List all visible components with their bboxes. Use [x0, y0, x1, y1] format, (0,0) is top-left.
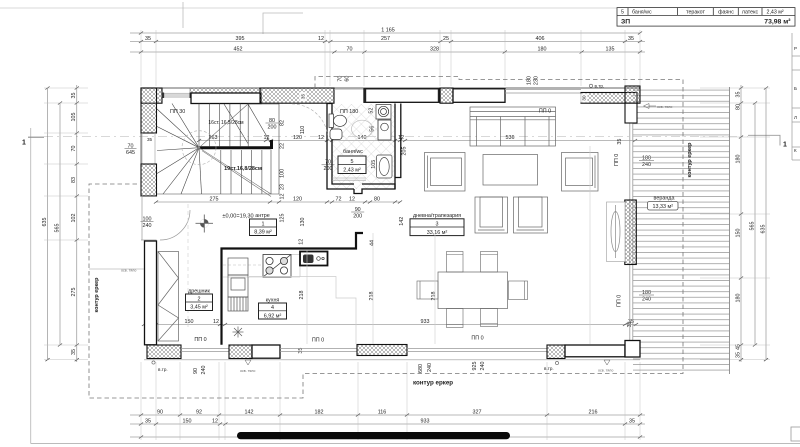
dimension col right segments — [735, 85, 743, 362]
svg-text:257: 257 — [381, 36, 390, 42]
svg-text:180: 180 — [735, 294, 741, 303]
door gap top 70 — [334, 88, 364, 90]
bay window contour dashed — [89, 77, 683, 399]
svg-text:35: 35 — [735, 92, 741, 98]
svg-text:135: 135 — [606, 46, 615, 52]
svg-text:13,33 м²: 13,33 м² — [653, 204, 674, 210]
label 70/60 rotated top — [338, 76, 351, 82]
svg-text:70: 70 — [347, 46, 353, 52]
label door 80/200 — [266, 118, 279, 131]
svg-text:35: 35 — [147, 137, 153, 142]
svg-text:1: 1 — [783, 142, 787, 149]
svg-text:в.тр.: в.тр. — [158, 367, 168, 372]
svg-text:3,45 м²: 3,45 м² — [190, 305, 208, 311]
bath sink — [376, 105, 391, 120]
svg-text:142: 142 — [245, 409, 254, 415]
antre dashed ref line — [187, 204, 189, 330]
svg-text:25: 25 — [443, 36, 449, 42]
wall thickness labels — [300, 92, 588, 103]
svg-text:536: 536 — [506, 135, 515, 141]
svg-text:933: 933 — [421, 319, 430, 325]
dining chair left — [417, 281, 438, 299]
stray vertical mark top-left — [182, 2, 184, 28]
svg-text:в.тр.: в.тр. — [544, 366, 554, 371]
stairs landing edge bold — [199, 140, 272, 149]
antre room label — [250, 213, 277, 236]
stairs upper flight treads — [199, 104, 279, 195]
dining chair top 2 — [481, 252, 498, 273]
antre door arc — [160, 210, 190, 240]
svg-text:контур еркер: контур еркер — [413, 380, 453, 387]
svg-text:дневна/трапезария: дневна/трапезария — [413, 213, 461, 219]
dimension row total 1165 top — [130, 27, 642, 34]
dining chair bottom 2 — [481, 309, 498, 327]
stairs hub circle dashed — [182, 131, 216, 165]
label 70/200 bath — [322, 160, 335, 173]
svg-text:680: 680 — [418, 364, 424, 373]
svg-text:2,43 м²: 2,43 м² — [343, 167, 361, 173]
svg-text:ПП 0: ПП 0 — [312, 338, 324, 344]
svg-text:110: 110 — [300, 126, 306, 135]
kitchen tall cabinet — [228, 258, 248, 297]
svg-text:1: 1 — [22, 140, 26, 147]
svg-text:8,39 м²: 8,39 м² — [254, 230, 272, 236]
kitchen zone edge — [248, 277, 356, 345]
dimension row bottom segments — [130, 409, 645, 416]
dining chair top 1 — [447, 252, 464, 273]
band end posts — [364, 89, 505, 103]
svg-text:92: 92 — [196, 409, 202, 415]
kitchen partition wall — [222, 233, 364, 345]
svg-text:латекс: латекс — [742, 9, 759, 15]
svg-text:фаянс: фаянс — [718, 9, 734, 15]
wall bottom D — [547, 345, 565, 359]
svg-text:35: 35 — [628, 36, 634, 42]
bathroom walls — [327, 104, 401, 194]
dimension col left 635 — [42, 87, 50, 362]
svg-text:16ст. 16,5/28см: 16ст. 16,5/28см — [208, 120, 244, 126]
svg-text:240: 240 — [143, 223, 152, 229]
wall bottom-right corner — [625, 341, 640, 358]
svg-text:1: 1 — [262, 221, 265, 227]
veranda deck — [633, 87, 730, 374]
armchair right — [562, 153, 599, 192]
interior dimension row y140 — [197, 135, 637, 142]
label window 100/240 — [141, 216, 154, 229]
bathtub — [377, 155, 393, 178]
svg-text:ПП 0: ПП 0 — [614, 154, 620, 166]
svg-text:Б: Б — [794, 86, 797, 91]
towel bar — [332, 178, 366, 180]
window band living top — [453, 89, 505, 103]
svg-text:100: 100 — [280, 169, 286, 178]
wardrobe room label — [186, 289, 213, 311]
svg-text:12: 12 — [318, 36, 324, 42]
wall top-right — [581, 93, 637, 104]
svg-text:240: 240 — [480, 362, 486, 371]
snowflake symbol — [233, 327, 244, 338]
svg-text:35: 35 — [629, 418, 635, 424]
sofa — [470, 107, 556, 146]
svg-text:в.тр.: в.тр. — [595, 84, 605, 89]
kitchen counter edge — [223, 255, 300, 278]
svg-text:12: 12 — [349, 196, 355, 202]
kitchen sink unit — [300, 252, 328, 266]
bath toilet — [329, 114, 347, 140]
window bottom living — [407, 349, 547, 352]
dining chair bottom 1 — [447, 309, 464, 328]
label window 180/240 upper — [639, 155, 654, 168]
svg-text:150: 150 — [185, 319, 194, 325]
top wall outer line — [141, 87, 640, 89]
wall pier top — [440, 88, 453, 103]
window W1 top sill — [164, 93, 190, 97]
wall left upper — [141, 88, 157, 133]
svg-text:102: 102 — [71, 214, 77, 223]
chair low left — [475, 197, 508, 233]
svg-text:баня/wc: баня/wc — [632, 9, 652, 15]
svg-text:275: 275 — [210, 196, 219, 202]
dimension row top segments — [130, 36, 645, 43]
redaction bar — [237, 432, 510, 439]
svg-text:6,92 м²: 6,92 м² — [264, 313, 282, 319]
bath oval — [352, 120, 373, 138]
svg-text:4: 4 — [271, 305, 274, 311]
bath boiler — [378, 120, 391, 140]
svg-text:±0,00=19,30: ±0,00=19,30 — [222, 214, 253, 220]
svg-text:12: 12 — [280, 194, 286, 200]
svg-text:30: 30 — [582, 95, 587, 101]
schedule table — [617, 8, 795, 27]
wall left lower — [145, 241, 157, 345]
veranda glazing — [630, 103, 633, 345]
svg-text:83: 83 — [71, 177, 77, 183]
labels PP0 — [194, 109, 551, 344]
window band bath top — [364, 89, 440, 103]
svg-text:антре: антре — [255, 213, 269, 219]
svg-text:35: 35 — [71, 93, 77, 99]
svg-text:5: 5 — [621, 9, 624, 15]
bathroom tile floor — [332, 104, 395, 189]
svg-text:35: 35 — [145, 36, 151, 42]
svg-text:80: 80 — [374, 196, 380, 202]
dimension col left 565 — [54, 102, 62, 347]
svg-text:веранда: веранда — [654, 196, 675, 202]
label door 70/645 — [125, 143, 137, 156]
svg-text:230: 230 — [533, 76, 539, 85]
svg-text:1 165: 1 165 — [381, 27, 395, 33]
light fixture marks — [121, 104, 672, 374]
svg-text:35: 35 — [301, 94, 306, 100]
svg-text:565: 565 — [749, 222, 755, 231]
coffee table — [483, 155, 538, 186]
interior dimension row y324 — [142, 319, 638, 326]
bottom wall outer line — [144, 359, 640, 361]
svg-text:5: 5 — [351, 159, 354, 165]
svg-text:80: 80 — [735, 104, 741, 110]
svg-text:218: 218 — [369, 292, 375, 301]
level mark — [196, 215, 214, 233]
svg-text:ЗП: ЗП — [621, 19, 630, 26]
svg-text:35: 35 — [145, 418, 151, 424]
svg-text:216: 216 — [589, 409, 598, 415]
window band top stairs — [191, 93, 261, 104]
svg-text:P: P — [794, 46, 797, 51]
svg-text:565: 565 — [54, 224, 60, 233]
wardrobe — [158, 252, 179, 342]
svg-text:ПП 0: ПП 0 — [471, 336, 483, 342]
svg-text:182: 182 — [315, 409, 324, 415]
extension lines bottom — [141, 362, 640, 440]
dimension col right 635 — [760, 87, 768, 362]
bay jambs left — [141, 197, 157, 241]
wall top-right corner block — [625, 86, 640, 103]
svg-text:2,43 м²: 2,43 м² — [767, 9, 784, 15]
stairs walk line up — [199, 104, 271, 197]
label window 180/240 lower — [639, 290, 654, 303]
chair low right — [514, 197, 548, 233]
stairs lower flight treads — [157, 150, 279, 194]
svg-text:осв. тяло: осв. тяло — [657, 105, 672, 109]
opening top 180 — [505, 90, 581, 94]
stairs winder treads fan — [157, 104, 202, 195]
svg-text:ПП 180: ПП 180 — [340, 109, 358, 115]
wall top-left corner — [141, 88, 162, 103]
sill bottom right — [565, 345, 625, 357]
svg-text:452: 452 — [234, 46, 243, 52]
bath door arc dashed — [292, 104, 328, 140]
sheet top edge line — [0, 7, 617, 9]
svg-text:240: 240 — [427, 363, 433, 372]
wall bottom C — [357, 345, 407, 356]
svg-text:130: 130 — [300, 218, 306, 227]
svg-text:ПП 30: ПП 30 — [170, 109, 185, 115]
left wall outer line — [140, 88, 142, 196]
svg-text:ПП 0: ПП 0 — [194, 337, 206, 343]
svg-text:22: 22 — [280, 143, 286, 149]
svg-text:12: 12 — [212, 418, 218, 424]
svg-text:142: 142 — [399, 217, 405, 226]
svg-text:635: 635 — [760, 225, 766, 234]
dimension row bottom total — [130, 436, 645, 439]
extension lines top — [141, 30, 640, 86]
sheet left vertical line — [30, 128, 32, 444]
svg-text:контур еркер: контур еркер — [94, 277, 100, 313]
dimension col right 565 — [749, 102, 757, 347]
kitchen ladder shelves — [228, 297, 248, 311]
svg-text:205: 205 — [402, 147, 408, 156]
svg-text:осв. тяло: осв. тяло — [240, 369, 255, 373]
door gap left 70 — [142, 133, 155, 164]
svg-text:180: 180 — [735, 155, 741, 164]
svg-text:635: 635 — [42, 218, 48, 227]
dimension col left segments — [71, 85, 79, 362]
svg-text:3: 3 — [436, 221, 439, 227]
interior rotated dimensions — [193, 108, 633, 375]
kitchen room label — [259, 298, 287, 320]
wall right mid block — [625, 200, 637, 265]
svg-text:327: 327 — [473, 409, 482, 415]
svg-text:теракот: теракот — [686, 9, 705, 15]
corner mark top — [263, 13, 303, 34]
svg-text:275: 275 — [71, 288, 77, 297]
svg-text:44: 44 — [370, 240, 376, 246]
bottom right box fragment — [791, 427, 800, 441]
bay left line — [89, 268, 144, 270]
svg-text:200: 200 — [268, 124, 277, 130]
svg-text:19ст.16,8/28см: 19ст.16,8/28см — [224, 166, 262, 172]
svg-text:200: 200 — [353, 213, 362, 219]
svg-text:осв. тяло: осв. тяло — [598, 369, 613, 373]
svg-text:12: 12 — [213, 319, 219, 325]
svg-text:73,98 м²: 73,98 м² — [764, 19, 791, 26]
svg-text:125: 125 — [280, 214, 286, 223]
svg-text:395: 395 — [236, 36, 245, 42]
svg-text:218: 218 — [299, 291, 305, 300]
pillar right top — [625, 103, 637, 123]
svg-text:ПП 0: ПП 0 — [539, 109, 551, 115]
svg-text:150: 150 — [183, 418, 192, 424]
svg-text:К: К — [794, 148, 797, 153]
svg-text:2: 2 — [198, 296, 201, 302]
svg-text:33,16 м²: 33,16 м² — [427, 230, 448, 236]
svg-text:150: 150 — [735, 229, 741, 238]
svg-text:105: 105 — [71, 113, 77, 122]
svg-text:12: 12 — [318, 135, 324, 141]
wall bottom A — [147, 345, 181, 359]
wall strip over band — [190, 88, 261, 93]
extension lines left — [44, 88, 88, 360]
svg-text:933: 933 — [421, 418, 430, 424]
svg-text:Л: Л — [794, 115, 797, 120]
svg-text:180: 180 — [526, 76, 532, 85]
svg-text:925: 925 — [472, 362, 478, 371]
svg-text:35: 35 — [71, 349, 77, 355]
svg-text:23: 23 — [280, 184, 286, 190]
plant frame — [607, 202, 626, 262]
svg-text:645: 645 — [126, 150, 135, 156]
kitchen stove — [263, 255, 291, 278]
svg-text:180: 180 — [538, 46, 547, 52]
section line 1-1 — [28, 135, 780, 145]
svg-text:328: 328 — [430, 46, 439, 52]
veranda edge — [729, 87, 731, 374]
svg-text:200: 200 — [324, 166, 333, 172]
dining chair right — [509, 281, 528, 300]
svg-text:116: 116 — [378, 409, 387, 415]
wall top stairs — [260, 88, 334, 103]
svg-text:ПП 0: ПП 0 — [617, 295, 623, 307]
dimension row bottom 933 — [130, 418, 645, 425]
svg-text:контур еркер: контур еркер — [687, 142, 693, 178]
svg-text:120: 120 — [293, 135, 302, 141]
svg-text:90: 90 — [157, 409, 163, 415]
window bottom mid — [280, 349, 357, 352]
svg-text:35: 35 — [735, 352, 741, 358]
dining table — [438, 272, 508, 309]
entry marks v.tr. — [152, 84, 604, 373]
right edge legend strip — [792, 33, 800, 160]
plant leaf — [611, 205, 620, 258]
svg-text:12: 12 — [298, 239, 304, 245]
svg-text:осв. тяло: осв. тяло — [121, 269, 136, 273]
window bottom kitchen — [181, 349, 229, 352]
bath room label — [338, 149, 366, 174]
armchair left — [425, 153, 466, 192]
veranda label — [648, 196, 679, 211]
svg-text:120: 120 — [293, 196, 302, 202]
svg-text:90: 90 — [193, 368, 199, 374]
sill bottom B — [252, 345, 280, 358]
svg-text:82: 82 — [280, 120, 286, 126]
interior dimension row y202 — [154, 196, 402, 203]
svg-text:35: 35 — [617, 139, 623, 145]
wall bottom B — [229, 345, 252, 359]
window opening left 100 — [141, 196, 143, 240]
svg-text:70: 70 — [71, 146, 77, 152]
stairs upper break lines — [224, 104, 279, 144]
svg-text:баня/wc: баня/wc — [343, 149, 363, 155]
extension lines right — [700, 88, 770, 360]
interior ref lines — [307, 146, 590, 344]
svg-text:72: 72 — [336, 196, 342, 202]
sheet bottom line — [31, 443, 800, 445]
svg-text:240: 240 — [201, 366, 207, 375]
label 180/230 rotated top — [526, 76, 539, 85]
label 90/200 — [351, 207, 364, 220]
svg-text:406: 406 — [536, 36, 545, 42]
living room label — [410, 213, 464, 236]
wall left mid — [141, 164, 157, 196]
dimension row top walls — [130, 46, 645, 53]
